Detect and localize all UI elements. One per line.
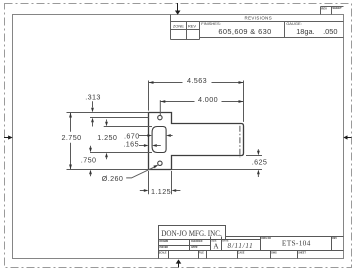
- top centering mark: [175, 3, 181, 15]
- svg-text:1.250: 1.250: [97, 133, 117, 142]
- svg-text:FILE: FILE: [199, 253, 204, 255]
- svg-text:ETS-104: ETS-104: [282, 239, 311, 248]
- revisions table lines: [171, 15, 344, 40]
- svg-text:.625: .625: [252, 158, 268, 167]
- svg-text:REV: REV: [188, 24, 197, 29]
- rev status cells above frame top right: [321, 7, 344, 15]
- title block lines: [159, 226, 344, 259]
- bottom centering mark: [176, 259, 182, 267]
- svg-text:REVISIONS: REVISIONS: [245, 16, 273, 21]
- left centering mark: [4, 135, 13, 139]
- svg-text:DWG NO: DWG NO: [261, 238, 271, 240]
- svg-text:Ø.260: Ø.260: [102, 174, 124, 183]
- top screw hole: [158, 115, 162, 119]
- svg-text:ZONE: ZONE: [173, 24, 184, 29]
- svg-text:8/11/11: 8/11/11: [228, 242, 254, 250]
- right centering mark: [343, 135, 351, 139]
- svg-text:4.000: 4.000: [198, 95, 218, 104]
- svg-text:GAUGE:: GAUGE:: [286, 21, 302, 26]
- svg-text:DWG: DWG: [271, 253, 277, 255]
- svg-text:1.125: 1.125: [151, 187, 171, 196]
- svg-text:REV: REV: [321, 7, 327, 11]
- part outline (strike plate with lip): [149, 113, 244, 170]
- svg-text:2.750: 2.750: [62, 133, 82, 142]
- svg-text:SCALE: SCALE: [159, 252, 167, 255]
- svg-text:.313: .313: [85, 92, 101, 101]
- svg-text:APPR: APPR: [191, 246, 198, 249]
- svg-text:4.563: 4.563: [187, 76, 207, 85]
- bottom screw hole: [158, 161, 162, 165]
- latch cutout: [152, 127, 166, 153]
- svg-text:.165: .165: [123, 140, 139, 149]
- svg-text:.050: .050: [323, 27, 337, 36]
- svg-text:605,609 & 630: 605,609 & 630: [218, 27, 271, 36]
- title block tiny labels: [159, 238, 338, 255]
- lip centerline: [239, 126, 241, 158]
- svg-text:SHEET: SHEET: [332, 6, 342, 10]
- svg-text:CHECKED: CHECKED: [191, 241, 203, 243]
- dim 4.000: [160, 101, 243, 103]
- revisions table text: [173, 16, 338, 36]
- svg-text:18ga.: 18ga.: [296, 27, 315, 36]
- svg-text:DRAWN: DRAWN: [160, 240, 169, 243]
- svg-text:A: A: [213, 243, 219, 251]
- dim 2.750: [70, 113, 72, 170]
- extension lines: [67, 81, 263, 195]
- svg-text:.750: .750: [81, 156, 97, 165]
- svg-text:CAGE: CAGE: [238, 252, 245, 255]
- svg-text:FINISHES:: FINISHES:: [201, 21, 221, 26]
- svg-text:REV: REV: [332, 238, 337, 240]
- dim 4.563: [149, 82, 244, 84]
- svg-text:DON-JO MFG. INC.: DON-JO MFG. INC.: [161, 228, 222, 238]
- svg-text:SHEET: SHEET: [298, 253, 306, 255]
- svg-text:ISSUED: ISSUED: [160, 247, 169, 249]
